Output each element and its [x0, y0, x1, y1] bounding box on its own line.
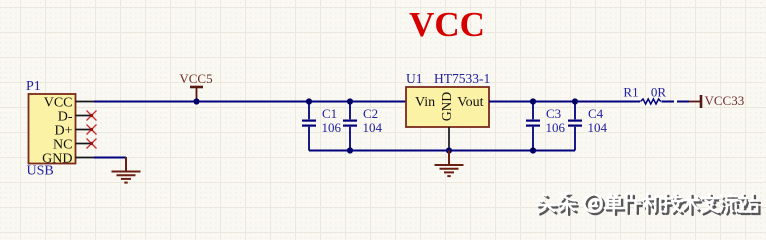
designator P1	[26, 79, 41, 94]
junction C3 top	[530, 98, 536, 104]
svg-text:Vin: Vin	[415, 95, 435, 110]
capacitor C4	[568, 102, 582, 151]
wire GND pin P1 to ground	[94, 158, 126, 159]
junction C4 top	[572, 98, 578, 104]
wire R1 to VCC33	[662, 101, 690, 103]
svg-text:VCC: VCC	[44, 95, 73, 110]
svg-text:C3: C3	[546, 106, 561, 121]
resistor R1 zigzag	[641, 99, 661, 104]
svg-text:NC: NC	[53, 137, 72, 152]
svg-text:104: 104	[588, 120, 608, 135]
value 106	[322, 120, 342, 135]
value 0R	[651, 85, 667, 100]
power port VCC5	[179, 71, 212, 101]
title VCC	[409, 5, 485, 44]
svg-text:C4: C4	[588, 106, 604, 121]
svg-text:GND: GND	[42, 151, 72, 166]
label C3	[546, 106, 561, 121]
junction C2 top	[347, 98, 353, 104]
wire VCC5 rail from P1 to U1 Vin	[94, 101, 406, 103]
value 104	[363, 120, 383, 135]
capacitor C1	[302, 102, 316, 151]
pin name Vout	[457, 95, 483, 110]
value 106	[546, 120, 566, 135]
wire Vout rail from U1 to R1	[489, 101, 640, 103]
no-ERC marker on NC	[87, 139, 97, 149]
svg-text:GND: GND	[439, 92, 454, 121]
junction at VCC5 tap	[193, 98, 199, 104]
svg-text:0R: 0R	[651, 85, 667, 100]
svg-text:VCC33: VCC33	[705, 93, 745, 108]
svg-text:Vout: Vout	[457, 95, 483, 110]
power port VCC33	[689, 93, 744, 108]
svg-text:C2: C2	[363, 106, 378, 121]
svg-text:HT7533-1: HT7533-1	[434, 71, 490, 86]
junction U1 GND at rail	[446, 147, 452, 153]
svg-text:P1: P1	[26, 79, 41, 94]
no-ERC marker on D-	[87, 111, 97, 121]
value HT7533-1	[434, 71, 490, 86]
svg-text:D+: D+	[54, 123, 72, 138]
svg-text:U1: U1	[406, 71, 423, 86]
pin name D-	[58, 109, 73, 124]
pin name D+	[54, 123, 72, 138]
comment USB	[27, 164, 54, 179]
pin 5 GND stub	[76, 157, 95, 159]
ground rail (bottom)	[309, 150, 575, 152]
svg-text:C1: C1	[322, 106, 337, 121]
pin name GND	[42, 151, 72, 166]
pin U1 GND down	[448, 127, 450, 151]
connector P1 body	[29, 94, 76, 164]
pin name Vin	[415, 95, 435, 110]
svg-text:R1: R1	[623, 85, 638, 100]
svg-text:104: 104	[363, 120, 383, 135]
label C2	[363, 106, 378, 121]
value 104	[588, 120, 608, 135]
ground symbol at P1	[112, 157, 141, 183]
pin name GND (rotated)	[439, 92, 454, 121]
pin name NC	[53, 137, 72, 152]
label C4	[588, 106, 604, 121]
label C1	[322, 106, 337, 121]
watermark 头条@单片机技术交流站	[537, 194, 760, 215]
svg-text:VCC5: VCC5	[179, 71, 212, 86]
capacitor C3	[526, 102, 540, 151]
pin 1 VCC stub	[76, 101, 95, 103]
pin 2 D- stub	[76, 115, 91, 117]
no-ERC marker on D+	[87, 125, 97, 135]
designator R1	[623, 85, 638, 100]
pin name VCC	[44, 95, 73, 110]
junction C3 bottom	[530, 147, 536, 153]
designator U1	[406, 71, 423, 86]
pin 3 D+ stub	[76, 129, 91, 131]
regulator U1 body	[406, 87, 489, 127]
svg-text:D-: D-	[58, 109, 73, 124]
junction C1 top	[306, 98, 312, 104]
capacitor C2	[343, 102, 357, 151]
ground symbol under U1	[435, 151, 464, 177]
svg-text:106: 106	[546, 120, 566, 135]
pin 4 NC stub	[76, 143, 91, 145]
junction C2 bottom	[347, 147, 353, 153]
svg-text:106: 106	[322, 120, 342, 135]
svg-text:VCC: VCC	[409, 5, 485, 44]
